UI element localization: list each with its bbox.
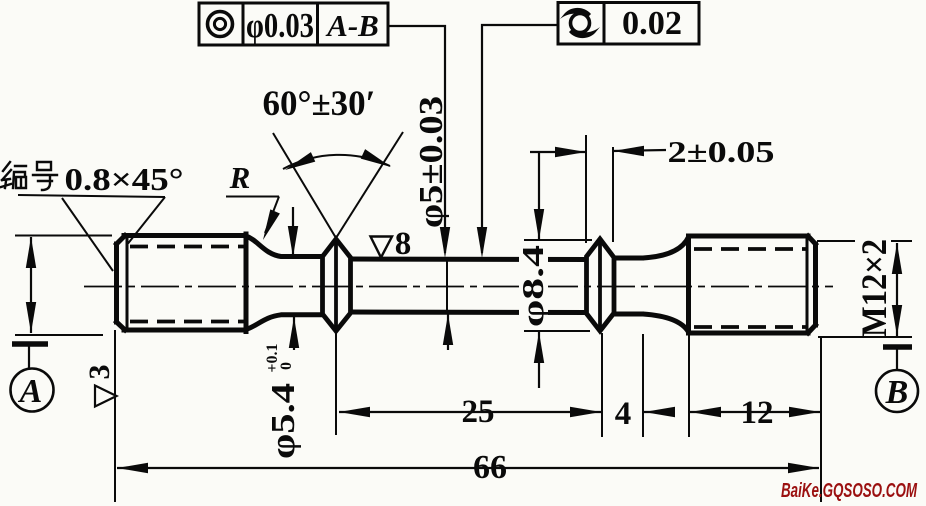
phi5.4 dimension arrows xyxy=(292,207,294,257)
left head chamfer inner edge xyxy=(126,236,129,330)
datum B circle xyxy=(876,370,918,412)
svg-text:0.02: 0.02 xyxy=(622,5,682,42)
svg-text:25: 25 xyxy=(462,394,495,430)
frame2 leader xyxy=(482,25,558,253)
svg-text:0.8×45°: 0.8×45° xyxy=(65,161,184,197)
right neck bottom xyxy=(614,312,645,317)
right fillet bottom xyxy=(643,314,689,332)
arc right arrow xyxy=(361,149,393,172)
svg-text:R: R xyxy=(229,160,251,195)
datum B stem xyxy=(896,347,898,370)
svg-text:φ8.4: φ8.4 xyxy=(515,245,550,327)
svg-text:φ5.4: φ5.4 xyxy=(265,383,302,459)
gauge section bottom line xyxy=(350,310,588,316)
dimension 66 xyxy=(114,330,116,502)
svg-text:φ5±0.03: φ5±0.03 xyxy=(413,96,450,228)
left collar (knife-edge ring) xyxy=(323,239,351,331)
centerline (axis) xyxy=(84,286,833,288)
right neck top xyxy=(614,256,645,261)
dimension 25 xyxy=(335,333,337,435)
concentricity symbol xyxy=(208,12,233,37)
bianhao leader diagonal xyxy=(62,198,113,271)
phi8.4 label background xyxy=(519,242,548,326)
svg-text:BaiKe.GQSOSO.COM: BaiKe.GQSOSO.COM xyxy=(781,480,918,502)
left fillet top xyxy=(246,236,323,257)
60 degree arc xyxy=(283,155,390,169)
svg-text:M12×2: M12×2 xyxy=(854,239,894,337)
svg-text:3: 3 xyxy=(83,365,116,380)
arc left arrow xyxy=(283,152,315,175)
right head thread dashed lines xyxy=(694,249,806,327)
runout symbol xyxy=(560,8,600,38)
svg-text:8: 8 xyxy=(395,226,412,262)
runout frame (tolerance box 2) xyxy=(558,3,699,45)
right collar crest line xyxy=(598,239,602,331)
svg-text:A-B: A-B xyxy=(325,8,379,43)
chamfer leader shelf xyxy=(18,195,165,197)
concentricity frame (tolerance box 1) xyxy=(199,3,388,45)
bianhao characters (编号) xyxy=(1,162,57,190)
phi5 dimension line through part xyxy=(446,260,448,311)
svg-text:0: 0 xyxy=(278,362,295,370)
right fillet top xyxy=(643,237,689,258)
datum B bar xyxy=(883,344,912,350)
M12x2 dimension xyxy=(817,240,912,242)
right head outline xyxy=(689,236,816,333)
datum A circle xyxy=(11,369,54,412)
left collar crest line xyxy=(334,239,338,331)
svg-text:2±0.05: 2±0.05 xyxy=(668,134,775,169)
roughness 8 triangle xyxy=(371,237,393,258)
svg-text:φ0.03: φ0.03 xyxy=(246,6,314,45)
dimension 12 xyxy=(688,334,690,437)
left head outline xyxy=(117,234,247,332)
datum A top extension xyxy=(15,235,112,237)
svg-text:B: B xyxy=(885,374,909,411)
roughness 3 on left extension xyxy=(95,386,117,407)
right head chamfer inner edge xyxy=(806,237,809,333)
datum A dimension line xyxy=(30,237,32,333)
60 degree V lines xyxy=(273,133,336,238)
frame1 leader arrow xyxy=(440,227,450,258)
left fillet bottom xyxy=(246,315,323,330)
dimension 4 xyxy=(642,334,644,437)
right collar xyxy=(587,239,615,331)
frame1 leader xyxy=(388,26,445,253)
left head thread dashed lines xyxy=(130,247,245,322)
svg-text:A: A xyxy=(18,373,43,410)
phi8.4 dimension xyxy=(524,239,592,241)
frame2 leader arrow xyxy=(477,227,487,258)
chamfer leader diagonal xyxy=(128,197,165,244)
svg-text:4: 4 xyxy=(615,396,632,432)
svg-text:66: 66 xyxy=(473,449,507,486)
2 +-0.05 dimension xyxy=(585,135,587,243)
datum A bottom extension xyxy=(15,334,103,336)
gauge section top line xyxy=(350,257,588,263)
phi5 bottom arrow xyxy=(447,314,449,350)
svg-text:60°±30′: 60°±30′ xyxy=(263,83,376,123)
datum A stem xyxy=(28,344,30,369)
datum A bar xyxy=(12,341,48,347)
svg-text:12: 12 xyxy=(741,395,774,431)
